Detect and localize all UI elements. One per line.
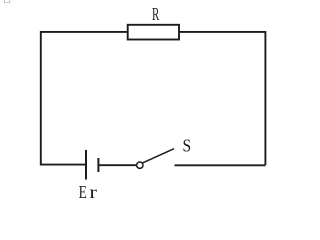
switch S pivot circle bbox=[137, 162, 143, 168]
battery E long plate bbox=[85, 150, 87, 180]
switch S blade bbox=[143, 149, 174, 163]
wire switch to right corner bbox=[175, 164, 266, 166]
svg-text:S: S bbox=[182, 135, 191, 155]
svg-text:E: E bbox=[79, 183, 87, 202]
wire bottom left bbox=[40, 164, 86, 166]
svg-text:R: R bbox=[152, 5, 159, 24]
wire battery to switch bbox=[98, 164, 136, 166]
battery E short plate bbox=[97, 158, 99, 172]
wire right vertical bbox=[264, 31, 266, 165]
svg-text:r: r bbox=[89, 183, 97, 202]
resistor R1 bbox=[128, 25, 179, 40]
wire left vertical bbox=[40, 31, 42, 165]
faint cropped square artifact top-left bbox=[5, 0, 10, 3]
wire top horizontal bbox=[41, 31, 266, 33]
